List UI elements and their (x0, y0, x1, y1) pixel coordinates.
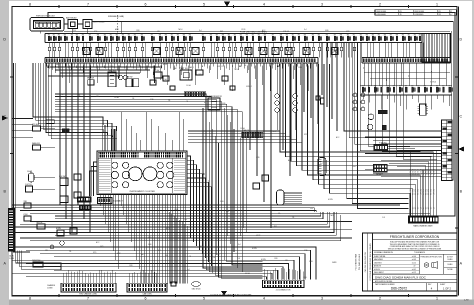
svg-text:PNL: PNL (271, 64, 274, 66)
svg-text:R8: R8 (340, 34, 342, 36)
wire TB feed 12 (373, 172, 442, 174)
wire mid row 5 (55, 104, 263, 261)
svg-text:12V: 12V (433, 207, 435, 210)
wire bottom run 4 (54, 257, 300, 280)
svg-text:D-4: D-4 (158, 250, 161, 252)
svg-text:720 ORG: 720 ORG (423, 188, 425, 195)
svg-text:12V: 12V (431, 207, 433, 210)
svg-text:B5: B5 (318, 34, 320, 36)
svg-text:OIL: OIL (292, 217, 295, 219)
instrument cluster harness downfan (101, 194, 186, 283)
key switch barrel (318, 158, 326, 176)
svg-text:E-2: E-2 (204, 102, 207, 104)
wire center drop 4 (212, 129, 262, 273)
svg-text:B0: B0 (347, 34, 349, 36)
svg-text:7: 7 (87, 2, 89, 6)
svg-text:R0: R0 (165, 34, 167, 36)
ground lamp (60, 241, 64, 245)
svg-text:CHASSIS: CHASSIS (47, 284, 56, 287)
svg-text:D: D (3, 37, 6, 41)
svg-text:FUEL: FUEL (309, 261, 313, 263)
wire cluster exit R4 (187, 169, 200, 250)
wire right riser 6 (358, 43, 409, 209)
sleeper feed connector band (360, 86, 453, 95)
sleeper band stub drops (363, 95, 450, 110)
svg-text:GRD 12: GRD 12 (283, 31, 289, 33)
indicator lamp column 4 (361, 93, 365, 111)
wire bottom run 3 (40, 254, 305, 280)
svg-text:3: 3 (321, 296, 323, 300)
svg-text:1939: 1939 (174, 209, 178, 211)
svg-text:R6: R6 (326, 34, 328, 36)
harness stub drops left (48, 66, 162, 84)
svg-text:5: 5 (203, 2, 205, 6)
wire bottom fan 1 (12, 204, 400, 206)
svg-text:B3: B3 (183, 34, 185, 36)
wire left stub 1 (12, 118, 33, 120)
svg-text:R2: R2 (177, 34, 179, 36)
svg-text:R3: R3 (122, 34, 124, 36)
wire bottom run 7 (40, 267, 283, 280)
svg-text:R5: R5 (378, 34, 380, 36)
4wd indicator (46, 120, 54, 124)
svg-text:OIL: OIL (69, 251, 72, 253)
wire bottom fan 2 (12, 208, 314, 212)
wire bottom fan 13 (20, 237, 352, 239)
ign switch (153, 70, 162, 78)
wire TB feed 13 (381, 176, 442, 178)
data link connector J1587 (77, 197, 91, 210)
wire bottom run 1 (12, 247, 316, 280)
chassis connector C2 (127, 283, 167, 292)
svg-text:MACHINED: MACHINED (374, 258, 384, 261)
svg-text:720 ORG: 720 ORG (433, 188, 435, 195)
svg-text:12V: 12V (428, 207, 430, 210)
svg-text:D66-25972: D66-25972 (391, 287, 407, 291)
svg-text:NONE: NONE (447, 269, 453, 271)
switch cluster C (60, 196, 68, 203)
harness bundle to chassis connector (169, 212, 187, 283)
C1 label (47, 284, 56, 290)
wire left bundle 1 (33, 63, 103, 125)
relay K9 (383, 125, 387, 130)
fuse row below band (48, 43, 423, 58)
wire column CC9 (317, 63, 319, 124)
FIREWALL label (108, 15, 124, 18)
wire cluster exit L1 (94, 162, 98, 196)
svg-text:FREIGHTLINER CORPORATION: FREIGHTLINER CORPORATION (390, 235, 440, 239)
wire shelf 1 (50, 66, 160, 68)
svg-text:DO NOT SCALE PRINT - IF IN DOU: DO NOT SCALE PRINT - IF IN DOUBT ASK (211, 294, 253, 297)
wire center drop 9 (227, 115, 229, 236)
wire bottom fan 7 (30, 221, 352, 223)
svg-text:J1 CONNECTOR: J1 CONNECTOR (276, 290, 291, 292)
svg-text:±0.06: ±0.06 (412, 256, 416, 258)
wire shelf 2 (55, 69, 150, 71)
svg-text:GRD 12: GRD 12 (246, 86, 252, 88)
wire bottom run 10 (26, 277, 267, 280)
svg-text:CLUTCH: CLUTCH (25, 184, 32, 186)
svg-text:GRD 12: GRD 12 (217, 66, 223, 68)
wire gate feed 3 (382, 63, 421, 151)
svg-text:CASTING: CASTING (374, 261, 382, 264)
wire center drop 10 (230, 122, 232, 244)
svg-text:FUEL: FUEL (55, 64, 59, 66)
wire cluster link 1 (188, 130, 280, 132)
wire cluster exit R3 (187, 165, 197, 246)
svg-text:B3: B3 (419, 34, 421, 36)
INSTRUMENT CLUSTER label (130, 191, 156, 193)
wire cluster link 3 (188, 136, 291, 138)
wire mid row 4 (55, 102, 222, 259)
terminal strip right TB1 (442, 120, 453, 181)
diode D2 (170, 86, 175, 90)
svg-text:B2: B2 (240, 34, 242, 36)
main orange gate connector (409, 216, 439, 223)
svg-text:IGN SW: IGN SW (153, 70, 160, 72)
wire bottom fan 14 (30, 215, 341, 241)
wire cluster exit R8 (187, 187, 212, 266)
svg-text:SLPR PNL: SLPR PNL (379, 142, 387, 144)
svg-text:INSTRUMENT CLUSTER: INSTRUMENT CLUSTER (130, 191, 156, 193)
C3 label (276, 290, 291, 292)
svg-text:±0.12: ±0.12 (412, 272, 416, 274)
wire TB feed 6 (365, 153, 442, 155)
wire ACC feed (92, 22, 453, 181)
wire cluster exit R2 (187, 160, 194, 242)
harness stub drops midleft (146, 66, 195, 86)
bottom scan margin (0, 300, 474, 305)
svg-text:R0: R0 (402, 34, 404, 36)
svg-text:B7: B7 (216, 34, 218, 36)
wire bottom run 6 (26, 264, 289, 280)
svg-text:CLS: CLS (184, 219, 187, 221)
svg-text:PNL: PNL (274, 226, 277, 228)
wire column CC1 (249, 63, 251, 150)
wire cluster link 2 (188, 133, 286, 135)
svg-text:OIL: OIL (278, 213, 281, 215)
svg-text:4: 4 (263, 2, 265, 6)
svg-text:GRD 12: GRD 12 (202, 210, 208, 212)
right band junction wires (363, 63, 450, 86)
svg-text:R4: R4 (189, 34, 191, 36)
svg-text:F31 CHASSIS MAIN: F31 CHASSIS MAIN (355, 253, 358, 270)
svg-text:R2: R2 (58, 34, 60, 36)
wire shelf 3 (60, 72, 140, 74)
lamp L5 (368, 114, 374, 120)
headlamp switch (108, 70, 116, 87)
wire column LC1 (59, 63, 61, 205)
wire column LC4 (77, 63, 79, 205)
svg-text:CLS: CLS (237, 258, 240, 260)
svg-text:PNL DIAG 24V AUX: PNL DIAG 24V AUX (358, 253, 361, 270)
wire TB feed 3 (381, 143, 442, 145)
wire bottom run 8 (54, 270, 278, 279)
svg-text:R8: R8 (97, 34, 99, 36)
relay K1 BAT RELAY (66, 17, 78, 29)
clutch switch (25, 184, 55, 192)
svg-text:FUEL: FUEL (117, 253, 121, 255)
svg-text:1: 1 (436, 2, 438, 6)
svg-text:CLS: CLS (382, 217, 385, 219)
wire number labels (45, 28, 385, 279)
wire center drop 13 (239, 143, 241, 236)
wire bottom fan 11 (12, 212, 334, 233)
wire column RC2 (326, 43, 328, 108)
wire K1 to K2 (78, 23, 84, 25)
harness fringe under band (47, 63, 317, 70)
svg-text:B4: B4 (372, 34, 374, 36)
wire bottom run 2 (26, 250, 311, 279)
svg-text:START SW: START SW (179, 67, 188, 70)
svg-text:OIL: OIL (210, 63, 213, 65)
svg-text:B4: B4 (128, 34, 130, 36)
wire column CC8 (310, 63, 312, 118)
svg-text:6: 6 (145, 296, 147, 300)
svg-text:ALARM RESISTOR: ALARM RESISTOR (207, 95, 223, 98)
svg-text:MKR SW: MKR SW (87, 78, 94, 80)
svg-text:1939: 1939 (136, 30, 140, 32)
centering arrow bottom (221, 291, 227, 296)
svg-text:D-4: D-4 (304, 29, 307, 31)
svg-text:R8: R8 (222, 34, 224, 36)
svg-text:720 ORG: 720 ORG (415, 188, 417, 195)
resistor 1W (37, 222, 46, 229)
svg-text:R3: R3 (246, 34, 248, 36)
svg-text:FUEL: FUEL (200, 246, 204, 248)
svg-text:R0: R0 (286, 34, 288, 36)
svg-text:FUEL: FUEL (352, 166, 356, 168)
wire gate feed 4 (389, 63, 426, 154)
harness stub drops center (202, 66, 308, 92)
centering arrow left (2, 116, 8, 121)
svg-text:WELDMENT: WELDMENT (374, 272, 384, 274)
svg-text:12V: 12V (413, 207, 415, 210)
svg-text:D-4: D-4 (199, 30, 202, 32)
svg-text:OIL: OIL (244, 65, 247, 67)
svg-text:R4: R4 (71, 34, 73, 36)
svg-text:R1: R1 (353, 34, 355, 36)
breakout oval (192, 282, 202, 291)
svg-text:CAD FILE D66-25972 REV: CAD FILE D66-25972 REV (364, 251, 367, 272)
wire center drop 6 (219, 143, 263, 277)
svg-text:B7: B7 (89, 34, 91, 36)
wire left stub 3 (12, 124, 33, 126)
pyro sensor (24, 214, 32, 221)
svg-text:FUEL: FUEL (303, 277, 307, 279)
dimmer switch (126, 77, 139, 87)
title block (363, 233, 458, 291)
wire relay K2 drop (87, 29, 89, 34)
svg-text:B8: B8 (280, 34, 282, 36)
wire firewall drop (120, 22, 122, 34)
junction node cluster net (203, 173, 210, 182)
switch S1 SPD SEN (32, 124, 55, 131)
sleeper panel block (374, 142, 388, 150)
svg-text:SPD SEN: SPD SEN (32, 124, 40, 126)
wire left bundle 6 (46, 63, 108, 135)
bottom margin note (211, 294, 253, 297)
wire left bundle 2 (36, 63, 108, 127)
wire column CC3 (263, 63, 265, 202)
wire battery feed top loop (48, 13, 455, 217)
flasher module U2 (418, 104, 429, 115)
svg-text:THROTTLE: THROTTLE (32, 260, 40, 262)
svg-text:A RELEASE: A RELEASE (377, 13, 387, 16)
wire bottom fan 4 (30, 212, 430, 214)
wire TB feed 2 (373, 139, 442, 141)
indicator lamp column 1 (275, 63, 279, 130)
wire left stub 7 (12, 136, 33, 138)
svg-text:R6: R6 (82, 34, 84, 36)
wire bottom fan 12 (55, 212, 336, 235)
svg-text:1: 1 (436, 296, 438, 300)
svg-text:720 ORG: 720 ORG (431, 188, 433, 195)
wire TB feed 10 (397, 166, 442, 168)
wire right riser 2 (347, 43, 409, 199)
inline splice pair (62, 129, 69, 133)
svg-text:ACC RELAY: ACC RELAY (94, 21, 106, 24)
wire cluster exit R1 (187, 156, 191, 238)
svg-text:B3: B3 (304, 34, 306, 36)
wire bottom fan 5 (55, 212, 321, 216)
start switch (179, 67, 192, 80)
svg-text:B6: B6 (264, 34, 266, 36)
svg-text:PNL: PNL (73, 30, 76, 32)
wire TB feed 4 (389, 146, 442, 148)
diode D3 (230, 86, 235, 90)
svg-text:±0.03: ±0.03 (412, 259, 416, 261)
wire mid row 1 (55, 94, 206, 248)
wire right riser 5 (355, 43, 442, 145)
relay K13 (163, 76, 169, 81)
relay K12 (150, 80, 156, 85)
buzzer pair (316, 96, 324, 104)
svg-text:B0: B0 (104, 34, 106, 36)
wire column CC5 (282, 63, 284, 150)
wire center drop 1 (203, 108, 263, 268)
wire relay K1 drop (72, 29, 74, 34)
svg-text:J1939: J1939 (109, 66, 113, 68)
svg-text:GND STUD: GND STUD (192, 288, 202, 290)
FUSE DISTRIBUTION PANEL label (240, 31, 268, 34)
wire right edge drop 3 (451, 31, 453, 128)
wire BAT to relay K1 (64, 23, 68, 25)
revision history table (375, 10, 457, 16)
svg-text:MAIN (ORANGE) GATE: MAIN (ORANGE) GATE (413, 225, 433, 228)
svg-text:B5: B5 (202, 34, 204, 36)
centering arrow top (224, 2, 230, 8)
svg-text:2: 2 (379, 296, 381, 300)
cab lights harness drop (237, 138, 246, 234)
svg-text:J1939: J1939 (136, 65, 140, 67)
relay K15 (222, 76, 228, 81)
svg-text:E-2: E-2 (122, 207, 125, 209)
svg-text:R5: R5 (258, 34, 260, 36)
centering arrow right (458, 147, 464, 152)
bulkhead strip label (9, 255, 15, 261)
svg-text:B8: B8 (159, 34, 161, 36)
svg-text:6: 6 (145, 2, 147, 6)
svg-text:TOLERANCE: TOLERANCE (414, 251, 426, 254)
C1 bottom label (79, 293, 97, 296)
bottom connector pigtails (63, 268, 303, 283)
svg-text:12V: 12V (423, 207, 425, 210)
svg-text:J1939: J1939 (70, 205, 74, 207)
power distribution module PDM (30, 18, 64, 32)
svg-text:±0.12: ±0.12 (412, 262, 416, 264)
svg-text:720 ORG: 720 ORG (426, 188, 428, 195)
svg-text:R7: R7 (151, 34, 153, 36)
svg-text:3: 3 (321, 2, 323, 6)
wire cluster exit L3 (89, 171, 97, 196)
svg-text:R5: R5 (134, 34, 136, 36)
wire column RC4 (336, 43, 338, 132)
wire center drop 11 (233, 129, 235, 252)
svg-text:R2: R2 (414, 34, 416, 36)
wire mid row 8 (55, 112, 263, 272)
wiper solenoid (277, 190, 303, 205)
svg-text:B0: B0 (228, 34, 230, 36)
wire column RC1 (321, 43, 323, 96)
svg-text:HDLP SW: HDLP SW (108, 70, 116, 72)
svg-text:1939: 1939 (298, 67, 302, 69)
svg-text:OIL: OIL (78, 95, 81, 97)
wire left bundle 3 (38, 63, 112, 129)
wire TB feed 7 (373, 156, 442, 158)
wire shelf 4 (48, 75, 120, 77)
svg-text:R1: R1 (234, 34, 236, 36)
svg-text:12V: 12V (418, 207, 420, 210)
switch cluster D (74, 192, 81, 198)
svg-text:720 ORG: 720 ORG (420, 188, 422, 195)
cab load block (373, 164, 387, 176)
wire column CC6 (289, 63, 291, 176)
marker lamp switch (87, 78, 94, 85)
svg-text:OIL: OIL (189, 256, 192, 258)
svg-text:OIL: OIL (132, 98, 135, 100)
wire bottom run 5 (12, 260, 294, 279)
svg-text:R1: R1 (110, 34, 112, 36)
junction node firewall feed (120, 21, 122, 23)
svg-text:FUEL: FUEL (272, 131, 276, 133)
svg-text:1939: 1939 (129, 265, 133, 267)
svg-text:OIL: OIL (130, 194, 133, 196)
svg-text:720 ORG: 720 ORG (413, 188, 415, 195)
firewall boundary dashed line (117, 15, 119, 33)
cab lights connector (242, 129, 263, 138)
svg-text:B4: B4 (252, 34, 254, 36)
relay K14 (196, 70, 203, 75)
indicator lamp column 2 (293, 63, 297, 130)
wire gate feed 2 (375, 63, 415, 149)
svg-text:D-4: D-4 (187, 269, 190, 271)
panel lamp rheostat (118, 75, 127, 79)
svg-text:B REVISED: B REVISED (415, 14, 425, 16)
svg-text:1-P2: 1-P2 (464, 300, 469, 302)
wire mid row 2 (55, 97, 211, 252)
svg-text:R7: R7 (390, 34, 392, 36)
bulkhead connector strip left (8, 209, 14, 252)
wire left bundle 7 (49, 63, 112, 137)
wire TB feed 1 (365, 136, 442, 138)
corner sheet note (464, 300, 469, 302)
ground point G2 (50, 245, 54, 249)
wire right riser 3 (349, 43, 441, 138)
svg-text:D: D (459, 37, 462, 41)
svg-text:CONN: CONN (9, 258, 15, 260)
svg-text:B1: B1 (53, 34, 55, 36)
